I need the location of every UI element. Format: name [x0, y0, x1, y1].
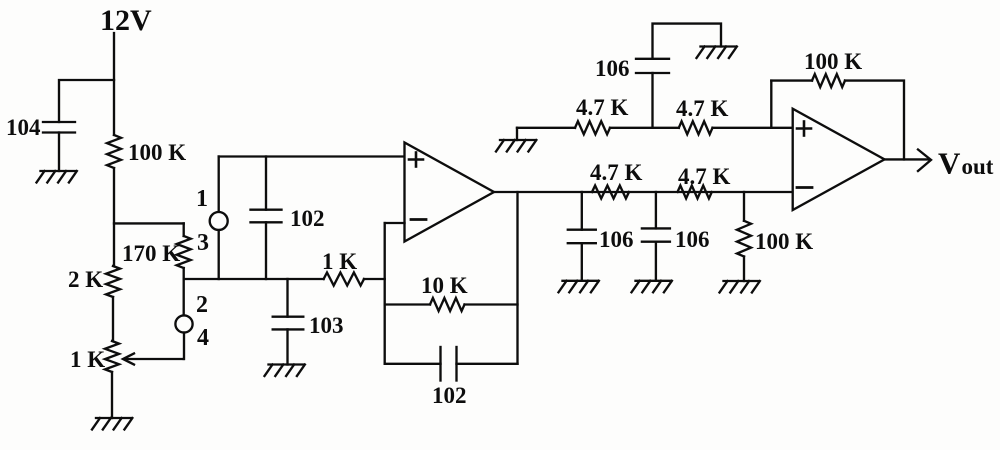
- svg-text:2: 2: [196, 292, 208, 318]
- resistor R 170K: [177, 236, 191, 268]
- svg-text:V: V: [938, 146, 961, 181]
- wire: branch to 104 cap: [59, 80, 114, 122]
- wire: 1K to ground: [111, 372, 113, 418]
- wire: plus network row: [517, 127, 575, 129]
- svg-text:out: out: [962, 154, 994, 179]
- wire: 1K to op-amp feedback node: [364, 278, 385, 280]
- svg-text:1: 1: [196, 186, 208, 212]
- svg-text:100 K: 100 K: [804, 49, 862, 74]
- ground left of plus row: [496, 140, 536, 152]
- capacitor C 106 (minus row 2): [642, 228, 670, 241]
- wire: node 3 down to row: [218, 230, 220, 279]
- svg-text:100 K: 100 K: [755, 229, 813, 254]
- ground top right: [697, 47, 737, 59]
- capacitor C 102 feedback (series plates): [441, 347, 457, 381]
- wire: feedback top row right + down to output: [845, 81, 904, 160]
- svg-text:12V: 12V: [100, 4, 152, 37]
- wire: node 4 down and left to wiper: [183, 333, 186, 359]
- resistor R 4.7K (bottom second): [678, 186, 712, 199]
- wire: 10K feedback row right lead: [465, 303, 518, 305]
- wire: 2K to 1K pot: [112, 297, 114, 341]
- resistor R 2K: [106, 266, 120, 297]
- wiper arrow of 1K pot: [123, 354, 184, 365]
- wire: 103 to ground: [286, 329, 288, 364]
- wire: 100K load to ground: [743, 257, 745, 282]
- resistor R 10K feedback: [430, 298, 465, 311]
- wire: main mid row y=279: [184, 278, 324, 280]
- ground under 1K: [92, 418, 132, 430]
- label Vout: [938, 146, 994, 181]
- wire: 12V rail down to 100K top: [113, 33, 115, 135]
- wire: branch to 170K: [114, 222, 184, 224]
- wire: U2 output with arrow: [885, 150, 932, 172]
- ground under 106 second: [632, 281, 672, 293]
- svg-text:102: 102: [290, 206, 325, 231]
- wire: 106 top cap to ground elbow: [653, 24, 722, 59]
- wire: top wire to op-amp U1 + input: [219, 155, 405, 157]
- svg-text:1 K: 1 K: [70, 347, 105, 372]
- wire: feedback left vertical: [384, 223, 386, 364]
- wire: 170K down to node row: [183, 268, 185, 316]
- svg-text:4.7 K: 4.7 K: [678, 164, 731, 189]
- wire: 106 cap1 to ground: [581, 243, 583, 281]
- svg-text:4.7 K: 4.7 K: [676, 96, 729, 121]
- wire: 102 cap bottom lead to row: [265, 222, 267, 279]
- resistor R 4.7K (bottom first): [592, 186, 629, 199]
- wire: 106 cap2 top lead: [655, 192, 657, 228]
- capacitor C 103: [273, 317, 304, 330]
- capacitor C 106 (top): [636, 59, 669, 73]
- ground under 103: [265, 365, 305, 377]
- svg-text:4.7 K: 4.7 K: [576, 95, 629, 120]
- wire: 103 cap top lead: [286, 279, 288, 317]
- svg-text:104: 104: [6, 115, 41, 140]
- resistor R 170K branch lead: [183, 223, 185, 236]
- resistor R 4.7K (top first): [575, 121, 610, 134]
- resistor R 100K load: [737, 221, 751, 257]
- resistor R 100K (left rail): [107, 135, 121, 168]
- svg-text:102: 102: [432, 383, 467, 408]
- wire: 104 cap to ground: [58, 133, 60, 172]
- svg-text:106: 106: [599, 227, 634, 252]
- resistor R 100K feedback U2: [812, 74, 845, 87]
- svg-text:3: 3: [197, 230, 209, 256]
- wire: feedback top row left lead: [771, 79, 812, 81]
- wire: U1 output row to op-amp U2 minus input: [494, 191, 793, 193]
- wire: 106 cap2 to ground: [655, 242, 657, 281]
- wire: top row to U2 plus input: [713, 127, 793, 129]
- capacitor C 104: [43, 122, 75, 133]
- svg-text:2 K: 2 K: [68, 267, 103, 292]
- wire: 10K feedback row left lead: [385, 303, 430, 305]
- test point circle node 1/3: [210, 212, 228, 230]
- resistor R 1K (series): [324, 273, 364, 286]
- potentiometer R 1K: [105, 341, 119, 372]
- wire: bottom feedback row right: [457, 363, 518, 365]
- capacitor C 102 (input): [251, 210, 282, 223]
- svg-text:106: 106: [595, 56, 630, 81]
- ground under 100K load: [720, 281, 760, 293]
- wire: 106 top cap lower lead: [651, 73, 653, 128]
- resistor R 4.7K (top second): [679, 121, 713, 134]
- test point circle node 2/4: [175, 315, 192, 332]
- wire: top row between resistors: [610, 127, 679, 129]
- svg-text:170 K: 170 K: [122, 241, 180, 266]
- wire: U1 minus input: [385, 222, 405, 224]
- op-amp U1: [405, 143, 495, 242]
- wire: bottom feedback row left: [385, 363, 441, 365]
- wire: 100K load top lead: [743, 192, 745, 221]
- svg-text:4: 4: [197, 325, 209, 351]
- svg-text:1 K: 1 K: [322, 249, 357, 274]
- ground under 104: [37, 171, 77, 183]
- ground under 106 first: [559, 281, 599, 293]
- svg-text:4.7 K: 4.7 K: [590, 160, 643, 185]
- op-amp U2: [793, 109, 885, 210]
- capacitor C 106 (minus row 1): [568, 230, 596, 244]
- wire: stub to ground (plus row): [516, 128, 518, 140]
- svg-text:106: 106: [675, 227, 710, 252]
- wire: 102 cap top lead: [265, 157, 267, 210]
- wire: feedback right vertical: [516, 192, 518, 364]
- wire: feedback tap up: [770, 81, 772, 128]
- svg-text:100 K: 100 K: [128, 140, 186, 165]
- wire: vertical with node 1/3 up to top wire: [218, 157, 220, 213]
- svg-text:103: 103: [309, 313, 344, 338]
- wire: 100K to 2K / branch node: [113, 168, 115, 266]
- svg-text:10 K: 10 K: [421, 273, 468, 298]
- wire: 106 cap1 top lead: [581, 192, 583, 230]
